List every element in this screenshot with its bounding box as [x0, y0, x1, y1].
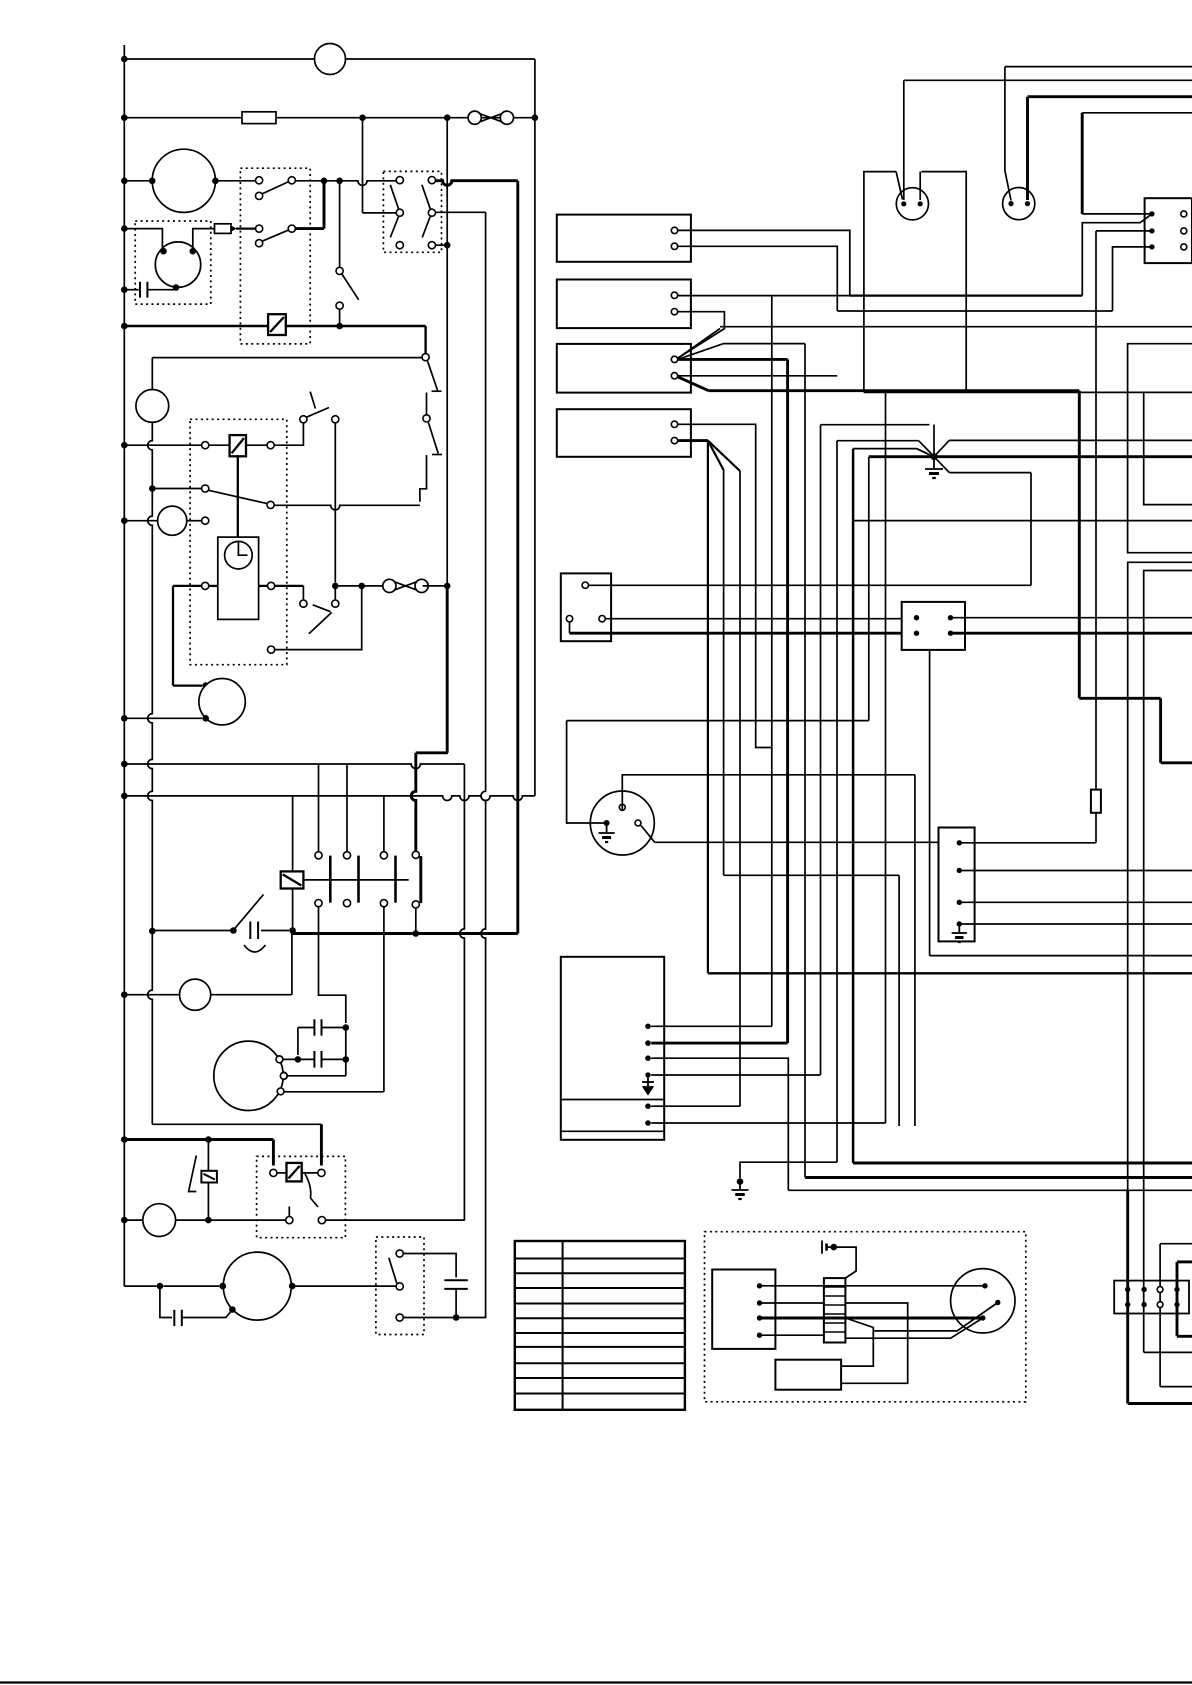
wire - thick ground bus — [869, 455, 1192, 458]
contact — [286, 1217, 293, 1224]
junction — [321, 178, 328, 185]
lamp box B — [1144, 392, 1192, 504]
junction — [220, 1283, 227, 1290]
wire — [295, 181, 396, 186]
pin — [957, 868, 962, 873]
wire — [259, 585, 268, 587]
pin — [1008, 201, 1013, 206]
pin — [1181, 228, 1187, 234]
wire — [885, 392, 887, 1123]
fuse F2 — [1091, 790, 1101, 813]
contact — [396, 1314, 403, 1321]
wire mod2-B — [678, 312, 725, 358]
wire — [297, 1028, 299, 1056]
wire mod4-A — [678, 424, 772, 747]
converter divider — [561, 1130, 664, 1132]
flasher box — [190, 419, 287, 664]
pin — [1149, 211, 1154, 216]
connector X2 — [1145, 198, 1192, 263]
wire — [435, 244, 447, 246]
contact — [202, 582, 209, 589]
contact — [288, 225, 295, 232]
junction — [121, 715, 128, 722]
wire — [207, 1140, 209, 1171]
clock — [225, 541, 253, 569]
wire — [187, 520, 202, 522]
contact — [423, 415, 430, 422]
wire - thick drop — [516, 181, 519, 934]
terminal strip — [824, 1278, 846, 1342]
switch arm — [342, 274, 359, 300]
contact — [428, 209, 435, 216]
aux box — [561, 573, 611, 641]
wire — [362, 118, 364, 213]
pin — [1149, 228, 1154, 233]
pin — [757, 1283, 762, 1288]
junction — [230, 927, 237, 934]
circuit breaker CB1 — [468, 111, 513, 124]
socket 1 — [896, 188, 928, 220]
switch arm — [422, 216, 430, 237]
tick — [432, 390, 442, 392]
module 2 — [557, 280, 691, 329]
pin — [671, 421, 677, 427]
control module — [712, 1270, 775, 1349]
wire - rail — [286, 325, 426, 327]
lamp box A — [1128, 344, 1192, 553]
wire - thick gnd — [852, 449, 855, 1163]
wire — [246, 444, 267, 446]
wire - thick — [1026, 97, 1029, 200]
wire - gnd feed — [837, 440, 919, 442]
row y=1286 corner — [124, 1285, 156, 1287]
wire — [292, 796, 294, 872]
pilot lamp — [180, 979, 211, 1010]
junction — [202, 682, 209, 689]
generator G1 — [152, 149, 215, 212]
junction — [358, 583, 365, 590]
contact — [396, 209, 403, 216]
wire — [919, 172, 921, 200]
wire — [460, 764, 465, 1221]
contact — [268, 646, 275, 653]
junction — [121, 225, 128, 232]
contact — [396, 177, 403, 184]
switch arm — [390, 216, 398, 237]
wire — [873, 1303, 998, 1331]
junction — [121, 517, 128, 524]
pin — [1141, 1287, 1146, 1292]
contact — [276, 1056, 283, 1063]
pin — [1174, 1287, 1179, 1292]
junction — [121, 286, 128, 293]
wire - thick to edge — [1177, 1335, 1192, 1338]
strip rungs — [824, 1287, 846, 1332]
connector terminal — [215, 224, 232, 234]
wire - top rail — [124, 58, 535, 60]
points plates — [250, 922, 258, 940]
ground cap — [822, 1241, 831, 1254]
contact — [396, 1283, 403, 1290]
junction — [212, 178, 219, 185]
buzzer reed — [189, 1156, 197, 1192]
wire - thick — [435, 181, 517, 186]
pin — [901, 201, 906, 206]
contact — [315, 900, 322, 907]
wire — [277, 1172, 287, 1174]
strain diag — [896, 172, 902, 200]
wire - thick — [1081, 113, 1084, 214]
wire — [415, 908, 417, 934]
wire — [322, 1058, 346, 1060]
pin — [957, 921, 962, 926]
contact — [300, 416, 307, 423]
wire — [209, 444, 230, 446]
tick — [432, 454, 442, 456]
wire - to edge — [1144, 1351, 1192, 1353]
fuse F2 wire — [1095, 231, 1097, 789]
gnd diag — [919, 441, 934, 457]
changeover switch box — [383, 171, 441, 252]
trailer plug — [590, 791, 654, 855]
wire — [589, 584, 1032, 586]
junction — [343, 1056, 350, 1063]
wire - thick row — [173, 585, 202, 587]
switch lever — [310, 392, 315, 409]
row y=995 — [124, 994, 179, 996]
wire — [481, 212, 486, 1317]
junction — [289, 927, 296, 934]
pin — [1157, 1287, 1163, 1293]
wire — [724, 343, 805, 345]
contact — [428, 242, 435, 249]
row y=1139.5 thick — [124, 1138, 273, 1141]
linkage — [303, 879, 408, 881]
wire - thick — [1176, 1262, 1179, 1336]
wire — [335, 585, 388, 587]
wire — [1082, 213, 1152, 215]
pin — [948, 615, 953, 620]
receptacle outline — [864, 172, 896, 393]
contact — [280, 1072, 287, 1079]
wire - thick — [1079, 697, 1160, 700]
junction — [121, 793, 128, 800]
pin — [914, 615, 919, 620]
wire — [147, 289, 174, 291]
wire — [820, 425, 822, 1075]
lamp L1 — [315, 44, 346, 75]
wire - thick — [570, 632, 917, 635]
wire — [651, 1025, 772, 1027]
junction — [121, 1136, 128, 1143]
wire — [949, 472, 1031, 474]
wire — [845, 1318, 982, 1338]
plug pin — [619, 804, 625, 810]
wire - thick — [1126, 1191, 1129, 1404]
junction — [173, 284, 180, 291]
wire — [403, 1254, 456, 1278]
wire - thick — [1159, 698, 1162, 763]
contact bar — [329, 856, 332, 903]
junction — [295, 1056, 302, 1063]
junction — [343, 1024, 350, 1031]
regulator coil — [268, 314, 286, 335]
contact bar — [419, 856, 422, 903]
switch arm — [422, 185, 431, 210]
wire - thick to edge — [1128, 1402, 1192, 1405]
contact — [318, 1217, 325, 1224]
junction — [229, 1306, 236, 1313]
wire mod3-A diag1 — [678, 329, 720, 359]
pin — [671, 437, 677, 443]
wire - thick — [272, 1140, 275, 1166]
wire — [760, 1334, 824, 1336]
capacitor C5 — [444, 1280, 468, 1289]
wire - second rail — [124, 117, 535, 119]
page rule — [0, 1681, 1192, 1683]
pin — [599, 616, 605, 622]
wire — [1113, 247, 1152, 311]
wire - thick to edge — [951, 632, 1192, 635]
contact — [412, 851, 419, 858]
wire mod1-B — [678, 246, 838, 311]
wire - thick to edge — [1028, 95, 1192, 98]
contact — [268, 582, 275, 589]
wire — [363, 212, 397, 214]
wire - thick — [760, 1317, 983, 1320]
switch arm — [309, 612, 332, 633]
junction — [121, 1217, 128, 1224]
switch arm — [389, 1258, 397, 1283]
pin — [645, 1120, 651, 1126]
wire — [569, 622, 571, 633]
wire - clock feed — [237, 456, 239, 541]
wire — [914, 775, 916, 1126]
contact — [256, 240, 263, 247]
wire - rail — [124, 325, 268, 327]
wire mod3-B — [678, 375, 838, 377]
pin — [671, 356, 677, 362]
contact — [256, 192, 263, 199]
capacitor C4 — [174, 1310, 182, 1326]
wire — [739, 471, 741, 1106]
gnd dot — [831, 1244, 838, 1251]
converter divider — [561, 1099, 664, 1101]
contact — [396, 242, 403, 249]
ammeter — [143, 1204, 176, 1237]
pin — [671, 227, 677, 233]
wire - thick — [786, 359, 789, 1043]
pin — [566, 616, 572, 622]
wire — [1095, 813, 1097, 843]
switch arm — [262, 230, 289, 241]
wire — [1030, 473, 1032, 586]
wire — [1096, 230, 1152, 232]
points line — [152, 930, 231, 932]
contact — [332, 416, 339, 423]
wire - thick bottom rail — [293, 932, 518, 935]
junction — [332, 583, 339, 590]
contact — [202, 517, 209, 524]
wire — [423, 585, 448, 587]
contact — [336, 302, 343, 309]
wire - long net — [853, 520, 1192, 522]
switch arm — [390, 185, 398, 210]
switch arm — [428, 361, 438, 390]
wire - trailer gnd drop — [868, 457, 870, 721]
pin — [757, 1315, 762, 1320]
junction — [121, 114, 128, 121]
wire — [455, 1289, 457, 1318]
pin — [1125, 1302, 1130, 1307]
wire — [740, 1162, 837, 1178]
wire — [426, 393, 428, 415]
capacitor C1 wire — [124, 289, 139, 291]
contact — [343, 852, 350, 859]
wire — [323, 181, 326, 229]
junction — [336, 323, 343, 330]
junction — [121, 56, 128, 63]
wire - to edge — [951, 617, 1192, 619]
wire — [255, 228, 257, 230]
row y=718 — [124, 717, 202, 719]
wire - to edge — [1160, 1386, 1192, 1388]
wire - thick — [651, 1042, 787, 1045]
flasher coil — [230, 435, 246, 456]
contact — [380, 852, 387, 859]
contact — [256, 225, 263, 232]
contactor relay coil — [281, 871, 304, 888]
wire - to edge — [949, 439, 1192, 441]
wire - plug right diag — [641, 826, 655, 843]
contact bar — [357, 856, 360, 903]
wire mod1-B row — [837, 310, 1112, 312]
module 4 — [557, 409, 691, 457]
wire — [898, 875, 900, 1126]
wire - left rail (battery bus) — [123, 59, 125, 1286]
contact bar — [394, 856, 397, 903]
contact — [332, 600, 339, 607]
junction — [205, 1136, 212, 1143]
pin — [1141, 1302, 1146, 1307]
receptacle outline — [921, 172, 966, 393]
wire - to edge — [962, 870, 1192, 872]
wire — [655, 841, 939, 843]
wire — [724, 874, 900, 876]
wire - thick — [709, 389, 1080, 392]
junction — [289, 1283, 296, 1290]
wire — [173, 684, 202, 686]
wire — [345, 1028, 347, 1076]
junction — [220, 1283, 227, 1290]
junction — [444, 114, 451, 121]
ground — [952, 924, 967, 942]
wire — [383, 907, 385, 1092]
wire — [1159, 1244, 1161, 1387]
junction — [444, 583, 451, 590]
pin — [671, 243, 677, 249]
wire — [435, 211, 485, 213]
junction — [121, 323, 128, 330]
meter M1 — [136, 390, 169, 423]
wire - plug top — [622, 775, 915, 811]
wire - net to right edge — [720, 326, 1192, 328]
junction — [190, 248, 197, 255]
ignition box — [135, 221, 211, 304]
wire — [933, 425, 935, 457]
wire - thick to edge — [805, 1176, 1192, 1179]
ignition coil — [155, 242, 200, 287]
fan diag — [708, 441, 724, 470]
circuit breaker CB2 — [383, 579, 428, 592]
junction — [157, 1283, 164, 1290]
wire - to edge — [904, 79, 1192, 81]
pin — [671, 292, 677, 298]
contact stub — [288, 1207, 290, 1217]
points arm — [235, 895, 264, 929]
row y=520 — [124, 520, 157, 522]
wire mod3-A thick — [678, 358, 788, 361]
wire — [841, 1318, 873, 1366]
lamp box C — [1128, 562, 1192, 1190]
wire - thick — [424, 326, 426, 354]
pin — [1157, 1302, 1163, 1308]
wire — [771, 296, 773, 1027]
wire - horn feed — [172, 586, 174, 686]
contact — [276, 1056, 283, 1063]
wire — [292, 1285, 396, 1287]
wire — [651, 1122, 885, 1124]
fan diag — [708, 441, 740, 471]
wire — [651, 1058, 788, 1190]
connector X1 — [902, 602, 965, 650]
wire - thick link — [295, 227, 324, 230]
wire — [836, 441, 838, 1162]
receptacle bottom — [864, 391, 1144, 393]
wire — [760, 1302, 824, 1304]
pin — [980, 1315, 985, 1320]
wire — [298, 1027, 315, 1029]
pin — [1025, 201, 1030, 206]
wire — [446, 118, 448, 586]
pin — [757, 1300, 762, 1305]
junction — [160, 248, 167, 255]
gnd diag out — [934, 440, 949, 456]
wire — [275, 585, 304, 587]
pin — [948, 631, 953, 636]
wire — [837, 1247, 856, 1278]
wire - thick — [320, 1124, 323, 1165]
wire — [383, 796, 385, 852]
pin — [957, 900, 962, 905]
wire - gnd feed — [853, 448, 916, 450]
contact — [277, 1088, 284, 1095]
wire - thick to edge — [1161, 761, 1192, 764]
wire — [151, 358, 153, 390]
sender box — [939, 828, 975, 942]
wire — [760, 1285, 986, 1287]
pin — [1181, 211, 1187, 217]
wire — [605, 618, 916, 620]
wire mod3-B thick diag — [678, 377, 709, 391]
relay arm — [305, 1174, 318, 1207]
wire - thick to edge — [708, 972, 1192, 974]
row y=764 — [124, 764, 464, 769]
contact — [396, 1250, 403, 1257]
wire — [1005, 67, 1011, 201]
module 1 — [557, 215, 691, 262]
clock hand — [238, 541, 247, 555]
